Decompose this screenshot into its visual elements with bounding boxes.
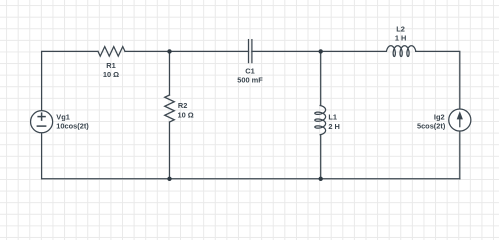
- junction L1 top: [319, 49, 323, 53]
- voltage source Vg1: [31, 111, 53, 133]
- wire L1 bottom lead: [320, 135, 322, 179]
- svg-text:10 Ω: 10 Ω: [178, 110, 194, 119]
- inductor L1: [315, 106, 326, 135]
- svg-text:10cos(2t): 10cos(2t): [56, 121, 89, 130]
- svg-text:1 H: 1 H: [395, 34, 407, 43]
- inductor L2: [387, 46, 416, 57]
- svg-text:Vg1: Vg1: [56, 112, 70, 121]
- wire L1 branch top lead: [320, 51, 322, 105]
- svg-text:5cos(2t): 5cos(2t): [417, 121, 446, 130]
- wire top rail left segment: [42, 51, 98, 111]
- wire R2 bottom lead: [169, 122, 171, 179]
- resistor R2: [165, 95, 175, 122]
- resistor R1: [98, 47, 125, 57]
- wire R2 branch top lead: [169, 51, 171, 95]
- junction R2 bottom: [167, 177, 171, 181]
- svg-text:C1: C1: [245, 66, 254, 75]
- wire Ig2 bottom to rail: [459, 131, 461, 179]
- svg-text:R1: R1: [106, 61, 115, 70]
- svg-text:Ig2: Ig2: [434, 112, 445, 121]
- Vg1 plus sign: [37, 112, 47, 126]
- wire C1 to L2: [252, 50, 386, 52]
- wire R1 to C1: [125, 50, 249, 52]
- capacitor C1: [248, 40, 250, 63]
- current source Ig2: [449, 109, 471, 131]
- svg-text:2 H: 2 H: [328, 122, 340, 131]
- svg-text:L2: L2: [396, 25, 405, 34]
- wire L2 to right corner, down to Ig2: [416, 51, 460, 109]
- svg-text:L1: L1: [328, 113, 337, 122]
- svg-text:500 mF: 500 mF: [237, 75, 263, 84]
- junction L1 bottom: [319, 177, 323, 181]
- Ig2 arrow: [458, 113, 462, 127]
- junction R2 top: [167, 49, 171, 53]
- svg-text:R2: R2: [178, 101, 187, 110]
- svg-text:10 Ω: 10 Ω: [103, 70, 119, 79]
- wire bottom rail: [42, 178, 460, 180]
- Vg1 minus sign: [37, 125, 47, 127]
- wire Vg1 bottom to rail: [41, 133, 43, 179]
